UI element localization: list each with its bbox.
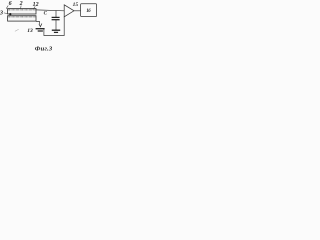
stray tick mark (15, 29, 19, 31)
ground left bar1 (ref 13) (36, 28, 45, 30)
svg-text:C: C (44, 11, 48, 16)
piezo plate top (ref 2) (8, 9, 36, 14)
ground mid bar2 (54, 31, 58, 33)
svg-text:6: 6 (9, 1, 12, 7)
ground left bar2 (38, 30, 43, 32)
svg-text:Фиг.3: Фиг.3 (35, 46, 53, 53)
leader from 12 (33, 6, 35, 9)
common rail (44, 17, 64, 36)
leader from 2 (20, 6, 23, 9)
svg-text:16: 16 (86, 9, 91, 14)
leader from 6 (6, 6, 8, 9)
capacitor C plate bottom (52, 19, 60, 21)
svg-text:15: 15 (73, 2, 79, 8)
piezo plate bottom (8, 16, 36, 21)
svg-text:13: 13 (27, 28, 33, 34)
svg-text:2: 2 (19, 1, 23, 7)
main wire to amplifier (36, 9, 64, 12)
svg-text:3: 3 (0, 11, 3, 17)
capacitor stub (top) (55, 10, 57, 17)
amplifier triangle (ref 15) (64, 5, 74, 17)
node dot (electrode junction) (9, 13, 11, 15)
capacitor lower stub (55, 20, 57, 30)
svg-text:12: 12 (33, 2, 39, 8)
ground mid bar1 (52, 29, 60, 31)
leader from 3 (4, 13, 9, 14)
output wire (74, 10, 81, 12)
capacitor C plate top (52, 16, 60, 18)
indicator box (ref 16) (81, 4, 97, 17)
bottom electrode wire (36, 21, 39, 24)
arrowhead down (39, 24, 42, 27)
